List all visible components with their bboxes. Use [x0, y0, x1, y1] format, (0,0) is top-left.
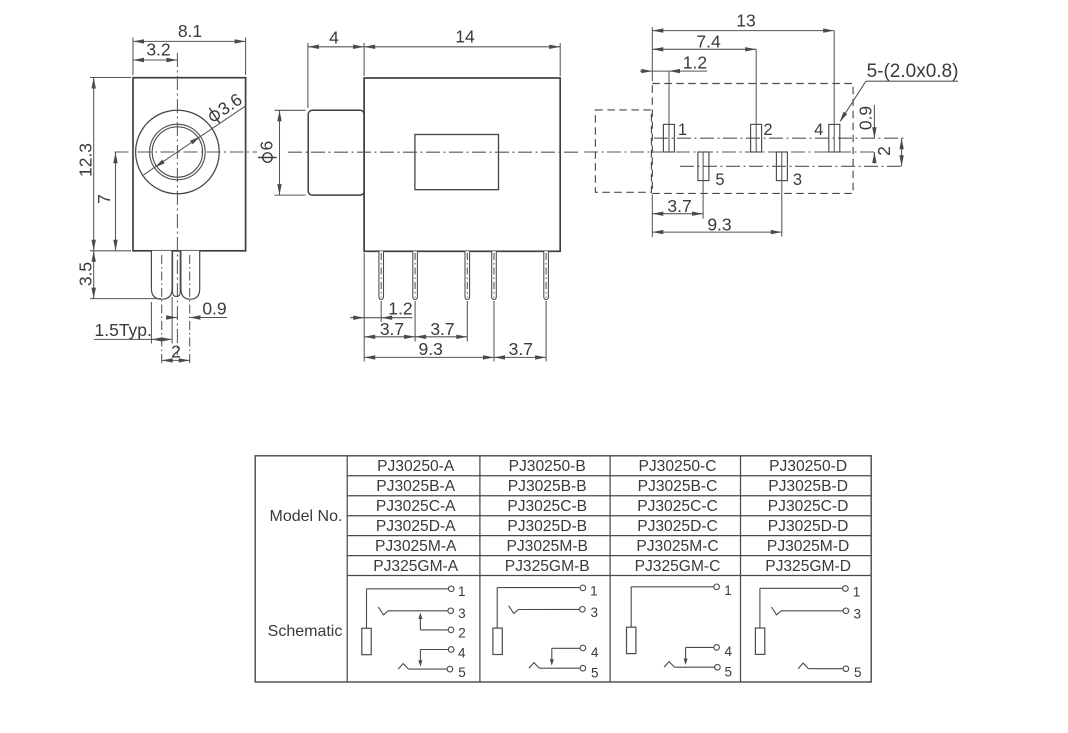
dim 1.2 side: [350, 299, 413, 320]
dim 1.2 pcb: [640, 52, 707, 73]
dim 3.7 pcb: [652, 196, 703, 216]
side view horizontal centerline: [288, 151, 578, 153]
svg-text:3.7: 3.7: [430, 319, 454, 339]
schematic A pin 1: [367, 584, 466, 599]
svg-text:2: 2: [874, 146, 894, 156]
svg-text:PJ3025D-C: PJ3025D-C: [637, 518, 718, 535]
svg-text:PJ3025B-B: PJ3025B-B: [508, 478, 587, 495]
svg-text:PJ3025M-A: PJ3025M-A: [375, 538, 457, 555]
side view pin 5: [544, 251, 549, 299]
svg-text:3: 3: [458, 606, 466, 621]
svg-text:4: 4: [458, 645, 466, 660]
schematic C sleeve wire: [630, 587, 632, 627]
dim 4: [308, 28, 364, 50]
svg-text:1: 1: [590, 584, 598, 599]
schematic A pin 5: [398, 664, 466, 680]
schematic D sleeve: [755, 628, 764, 654]
svg-text:Model No.: Model No.: [270, 508, 343, 525]
dim 0.9 pcb: [856, 105, 877, 164]
svg-text:PJ3025C-D: PJ3025C-D: [768, 498, 849, 515]
svg-text:5: 5: [458, 665, 466, 680]
dim phi6 extension lines: [275, 110, 306, 195]
svg-text:PJ30250-D: PJ30250-D: [769, 458, 847, 475]
svg-text:8.1: 8.1: [178, 21, 202, 41]
table model row PJ3025C: [376, 498, 849, 515]
side view window: [415, 135, 499, 190]
schematic A pin 3: [378, 606, 465, 621]
dim 2 front: [162, 342, 190, 363]
dim phi3.6 arrows: [154, 136, 200, 167]
side view pin 4: [492, 251, 497, 299]
svg-text:2: 2: [458, 625, 466, 640]
svg-text:1: 1: [678, 121, 687, 139]
svg-text:0.9: 0.9: [202, 299, 226, 319]
schematic B switch 4-5: [550, 648, 554, 666]
pcb pad number 2: [763, 121, 772, 139]
dim 13: [652, 11, 834, 33]
schematic A sleeve wire: [366, 589, 368, 629]
svg-text:PJ325GM-C: PJ325GM-C: [635, 558, 721, 575]
svg-text:PJ3025D-D: PJ3025D-D: [768, 518, 849, 535]
dim phi3.6 text: [205, 89, 246, 126]
dim phi6: [257, 110, 282, 195]
dim 3.5: [76, 251, 96, 299]
svg-text:3: 3: [590, 605, 598, 620]
dim 3.5 extension line: [90, 298, 161, 300]
pcb pad number 3: [793, 171, 802, 189]
schematic B sleeve wire: [496, 588, 498, 629]
schematic D pin 1: [760, 584, 860, 599]
front view left pin: [151, 251, 172, 299]
dim 8.1 extension lines: [133, 38, 246, 76]
dim 2 pcb: [874, 138, 904, 166]
svg-text:2: 2: [763, 121, 772, 139]
svg-text:PJ3025D-A: PJ3025D-A: [376, 518, 456, 535]
side view pin 3: [465, 251, 470, 299]
svg-text:5: 5: [725, 664, 733, 679]
pcb pad 4: [829, 124, 840, 152]
svg-text:2: 2: [171, 342, 181, 362]
front view left pin centerline: [161, 255, 163, 364]
schematic B pin 1: [497, 584, 597, 599]
table model row PJ30250: [377, 458, 847, 475]
table model row PJ325GM: [373, 558, 851, 575]
svg-text:PJ3025M-C: PJ3025M-C: [636, 538, 718, 555]
pcb pad1 extension: [668, 71, 670, 152]
svg-text:3.2: 3.2: [146, 40, 170, 60]
pcb pad 2: [751, 124, 762, 152]
leader 5-(2.0x0.8): [840, 61, 959, 122]
schematic D pin 5: [798, 663, 861, 680]
svg-text:1: 1: [853, 584, 861, 599]
svg-text:3: 3: [793, 171, 802, 189]
side pin extension lines: [381, 301, 546, 362]
schematic C pin 4: [686, 644, 733, 659]
pcb bottom-row centerline: [680, 165, 903, 167]
schematic A pin 2: [420, 625, 465, 640]
svg-text:7.4: 7.4: [696, 31, 721, 51]
svg-text:3: 3: [853, 606, 861, 621]
pcb pad 3: [776, 152, 787, 181]
pcb pad number 1: [678, 121, 687, 139]
front view middle pin: [173, 251, 181, 297]
pcb pad number 5: [715, 171, 724, 189]
pcb body dashed outline: [652, 84, 853, 194]
svg-text:5: 5: [715, 171, 724, 189]
svg-text:3.7: 3.7: [380, 319, 404, 339]
svg-text:9.3: 9.3: [707, 214, 731, 234]
pcb pad number 4: [814, 121, 823, 139]
svg-text:5: 5: [854, 665, 862, 680]
pcb pad2 extension: [755, 49, 757, 152]
svg-text:1: 1: [458, 584, 466, 599]
front view bushing circle: [150, 124, 206, 180]
schematic B sleeve: [493, 628, 502, 654]
svg-text:0.9: 0.9: [856, 106, 876, 130]
schematic D pin 3: [771, 606, 861, 621]
schematic B pin 5: [529, 663, 599, 681]
schematic C pin 1: [631, 583, 732, 598]
schematic A sleeve: [362, 628, 371, 654]
front view bore circle: [152, 127, 202, 177]
pcb pad 5: [698, 152, 709, 181]
svg-text:4: 4: [814, 121, 823, 139]
svg-text:4: 4: [591, 645, 599, 660]
table label Model No.: [270, 508, 343, 525]
svg-text:PJ30250-B: PJ30250-B: [509, 458, 586, 475]
side view barrel outline: [308, 110, 364, 195]
dim 0.9 front: [166, 299, 227, 320]
svg-text:7: 7: [94, 194, 114, 204]
dim 4 extension lines: [308, 43, 364, 108]
dim phi3.6 leader line: [144, 106, 246, 175]
svg-text:1: 1: [724, 583, 732, 598]
pcb barrel dashed outline: [595, 110, 651, 192]
svg-text:14: 14: [455, 27, 475, 47]
schematic C switch 4-5: [684, 647, 688, 665]
front view vertical centerline: [176, 53, 178, 355]
table model row PJ3025B: [376, 478, 848, 495]
svg-text:PJ3025M-D: PJ3025M-D: [767, 538, 849, 555]
svg-text:1.5Typ.: 1.5Typ.: [95, 320, 152, 340]
svg-text:3.7: 3.7: [509, 339, 533, 359]
svg-text:5: 5: [591, 665, 599, 680]
dim 14: [364, 27, 560, 50]
pcb pad3 extension: [781, 152, 783, 237]
svg-text:PJ325GM-B: PJ325GM-B: [505, 558, 590, 575]
side body-left extension line: [363, 253, 365, 362]
svg-text:PJ30250-C: PJ30250-C: [638, 458, 716, 475]
svg-text:PJ3025B-D: PJ3025B-D: [768, 478, 848, 495]
svg-text:PJ30250-A: PJ30250-A: [377, 458, 455, 475]
svg-text:PJ325GM-D: PJ325GM-D: [765, 558, 851, 575]
schematic A switch 2-3: [418, 613, 422, 630]
svg-text:4: 4: [724, 644, 732, 659]
svg-text:PJ3025D-B: PJ3025D-B: [507, 518, 587, 535]
front view right pin centerline: [189, 255, 191, 364]
dim 12.3 extension lines: [90, 78, 131, 251]
schematic A pin 4: [420, 645, 466, 660]
svg-text:3.7: 3.7: [667, 196, 691, 216]
svg-text:PJ325GM-A: PJ325GM-A: [373, 558, 459, 575]
front view horizontal centerline: [115, 151, 258, 153]
dim 8.1: [133, 21, 246, 44]
svg-text:PJ3025C-B: PJ3025C-B: [507, 498, 587, 515]
table model row PJ3025M: [375, 538, 849, 555]
table model row PJ3025D: [376, 518, 849, 535]
svg-text:PJ3025B-A: PJ3025B-A: [376, 478, 455, 495]
dim 3.2: [133, 40, 177, 63]
dim 0.9 front extension: [151, 297, 172, 344]
dim 3.7 side c: [494, 339, 546, 360]
schematic C pin 5: [664, 662, 732, 680]
svg-text:PJ3025B-C: PJ3025B-C: [638, 478, 718, 495]
dim 3.7 side a: [364, 319, 415, 339]
svg-text:Schematic: Schematic: [268, 623, 343, 640]
dim 12.3: [76, 78, 96, 251]
schematic C sleeve: [627, 627, 636, 653]
schematic A switch 4-5: [418, 650, 422, 667]
svg-text:5-(2.0x0.8): 5-(2.0x0.8): [867, 61, 959, 82]
schematic D sleeve wire: [759, 588, 761, 628]
pcb pad 1: [663, 124, 674, 152]
svg-text:1.2: 1.2: [388, 299, 412, 319]
svg-text:1.2: 1.2: [683, 52, 707, 72]
pcb pad4 extension: [833, 31, 835, 152]
svg-text:4: 4: [329, 28, 339, 48]
svg-text:PJ3025C-A: PJ3025C-A: [376, 498, 456, 515]
pcb left-edge extension: [651, 27, 653, 237]
svg-text:PJ3025M-B: PJ3025M-B: [506, 538, 587, 555]
dim 7.4: [652, 31, 756, 51]
dim 7: [94, 152, 118, 251]
pcb top-row centerline: [654, 137, 903, 139]
front view right pin: [181, 251, 200, 299]
schematic B pin 3: [509, 605, 598, 620]
pcb pad5 extension: [702, 152, 704, 219]
side view pin 2: [413, 251, 418, 299]
svg-text:9.3: 9.3: [419, 339, 443, 359]
table grid: [255, 456, 871, 682]
dim 9.3 pcb: [652, 214, 782, 234]
pcb main axis centerline: [584, 151, 881, 153]
dim 1.5Typ: [94, 320, 172, 342]
front view outer circle: [136, 110, 220, 194]
dim 14 extension line: [559, 43, 561, 76]
svg-text:6: 6: [257, 141, 277, 151]
schematic B pin 4: [552, 645, 599, 660]
dim 9.3 side: [364, 339, 494, 360]
svg-text:PJ3025C-C: PJ3025C-C: [637, 498, 718, 515]
side view pin 1: [379, 251, 384, 299]
side view body outline: [364, 78, 560, 251]
svg-text:13: 13: [736, 11, 755, 31]
front view body outline: [133, 78, 246, 251]
table label Schematic: [268, 623, 343, 640]
svg-text:3.5: 3.5: [76, 262, 96, 286]
dim 3.7 side b: [415, 319, 467, 339]
svg-text:12.3: 12.3: [76, 143, 96, 177]
